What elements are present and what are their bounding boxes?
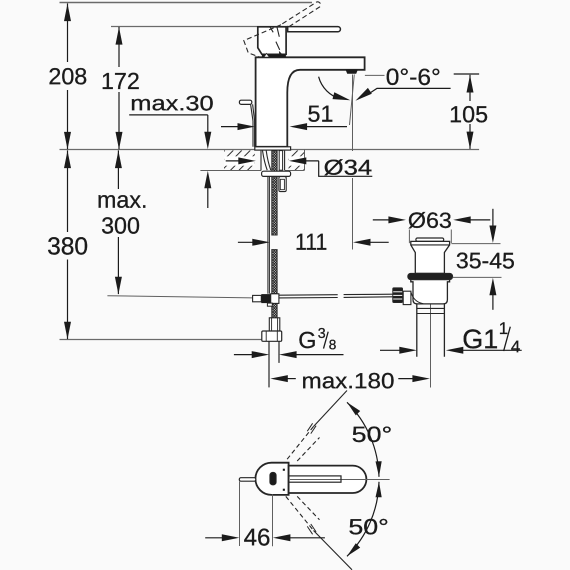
swing range upper second dashed xyxy=(297,438,319,462)
swing range lower line dashed xyxy=(286,496,314,530)
faucet body and spout outline xyxy=(256,57,365,147)
swing range lower line solid xyxy=(314,531,353,570)
hose curve in hole 2 xyxy=(266,151,271,171)
mounting hole right wall xyxy=(284,151,286,171)
dimension 105 top tick xyxy=(454,73,479,75)
pop-up rod ref line (max.300 datum) xyxy=(107,296,252,298)
rod clamp lower tab xyxy=(267,303,272,306)
drain plug body xyxy=(411,241,450,273)
spout swing arc xyxy=(319,77,341,99)
base escutcheon plate xyxy=(255,147,291,150)
svg-text:4: 4 xyxy=(511,337,520,356)
counter top line xyxy=(60,149,480,151)
rod clamp screw block xyxy=(261,294,270,303)
cartridge inner edge 3 xyxy=(276,42,280,50)
dimension max.300 line xyxy=(117,150,119,189)
dimension dia34 arrow right xyxy=(289,157,307,164)
mounting hole left wall xyxy=(260,151,262,171)
pop-up rod in hole xyxy=(279,151,282,171)
dimension G1 1/4 line left xyxy=(380,349,402,351)
ball joint socket xyxy=(403,291,411,304)
svg-text:50°: 50° xyxy=(348,514,389,539)
braided hose lower section xyxy=(272,250,278,318)
svg-text:Ø63: Ø63 xyxy=(408,208,452,233)
drain flange ring xyxy=(408,273,453,279)
counter hatch right xyxy=(278,150,323,170)
ref line top of handle (172 datum) xyxy=(111,26,288,28)
dimension max.180 arrow left xyxy=(270,375,288,382)
dimension 111 line left xyxy=(238,241,255,243)
counter hatch left xyxy=(205,150,267,170)
svg-text:35-45: 35-45 xyxy=(456,248,515,273)
svg-text:0°-6°: 0°-6° xyxy=(386,64,441,90)
dimension G3/8 line right xyxy=(279,351,297,358)
dimension 46 ext left xyxy=(239,481,241,546)
svg-text:46: 46 xyxy=(244,524,271,551)
svg-text:172: 172 xyxy=(101,68,140,94)
cartridge contact band xyxy=(262,54,286,57)
svg-text:51: 51 xyxy=(308,101,334,127)
swing angle upper arc xyxy=(347,402,379,477)
dimension dia34 arrow left xyxy=(226,160,244,162)
counter bottom line left xyxy=(200,170,261,172)
svg-text:8: 8 xyxy=(329,337,337,352)
swing range upper line dashed xyxy=(286,427,314,461)
hose lower ref line (380 datum) xyxy=(60,339,262,341)
pop-up rod stem xyxy=(251,104,255,147)
dimension 172 line xyxy=(118,27,120,67)
dimension max.30 leader down xyxy=(207,115,209,134)
dimension dia63 tick right xyxy=(450,230,452,244)
hose hex nut G3/8 xyxy=(262,331,282,341)
dimension 51 line right xyxy=(304,126,347,128)
dimension 0-6 deg line right xyxy=(454,73,479,75)
svg-text:max.: max. xyxy=(97,187,147,213)
top view screw dot upper xyxy=(283,469,285,471)
top view centerline xyxy=(290,479,390,481)
svg-text:111: 111 xyxy=(295,229,327,255)
dimension 51 line left xyxy=(221,126,240,128)
svg-text:G: G xyxy=(298,327,316,353)
pop-up rod knob xyxy=(239,100,251,104)
dimension 380 line xyxy=(67,150,69,232)
dimension max.30 arrow below counter xyxy=(207,188,209,209)
dimension dia63 tick left xyxy=(408,230,410,244)
dimension 46 line left xyxy=(205,537,224,539)
cartridge inner tip xyxy=(279,51,283,54)
svg-text:1: 1 xyxy=(499,319,508,338)
rod guide housing xyxy=(279,177,286,192)
rod clamp right piece xyxy=(271,294,279,304)
raised handle upper edge (dashed) xyxy=(282,2,320,27)
ball joint arc xyxy=(411,292,423,304)
counter right edge xyxy=(304,150,306,171)
dimension max.30 underline xyxy=(129,114,208,116)
drain centerline extension xyxy=(430,304,432,388)
svg-text:300: 300 xyxy=(101,212,140,238)
horizontal pop-up rod to drain xyxy=(279,294,393,298)
dimension max.180 arrow right xyxy=(398,378,415,380)
dimension 46 ext right xyxy=(272,494,274,546)
dimension 46 line right xyxy=(273,534,291,541)
top view pop-up rod stub xyxy=(239,478,256,482)
dimension 35-45 line top xyxy=(492,209,494,228)
svg-text:max.30: max.30 xyxy=(130,92,213,115)
svg-text:380: 380 xyxy=(47,233,88,260)
pop-up rod below counter xyxy=(268,177,270,294)
dimension G1 1/4 line right xyxy=(446,347,464,354)
cartridge / handle base xyxy=(258,27,286,55)
swing range lower second dashed xyxy=(297,496,319,519)
rod guide inner xyxy=(280,179,284,189)
counter bottom line right xyxy=(285,170,304,172)
swing range upper line solid xyxy=(314,391,348,427)
dimension 208 line xyxy=(67,3,69,62)
hose end fitting xyxy=(269,318,280,331)
svg-text:50°: 50° xyxy=(352,422,393,447)
svg-text:208: 208 xyxy=(48,63,87,89)
aerator outlet xyxy=(346,70,358,74)
dimension 111 line right xyxy=(353,239,371,246)
water stream tilted line (0-6 deg) xyxy=(350,75,355,126)
dimension 0-6 deg line left xyxy=(365,74,385,76)
hatch halo for dia34 dimension xyxy=(224,156,255,165)
top view handle bar xyxy=(289,466,367,493)
top view cartridge mark xyxy=(270,472,276,485)
dimension 35-45 line bottom xyxy=(492,294,494,310)
dimension dia63 line right xyxy=(453,216,471,223)
dimension 35-45 ext top xyxy=(452,243,501,245)
dimension dia63 line left xyxy=(373,219,391,221)
rod clamp left piece xyxy=(253,295,262,301)
top view escutcheon xyxy=(255,463,288,495)
ref line top of lever (208 datum) xyxy=(60,2,313,4)
svg-text:Ø34: Ø34 xyxy=(324,156,373,180)
top view handle slot xyxy=(289,476,341,482)
hose curve in hole 1 xyxy=(263,151,268,171)
dimension 0-6 deg leader xyxy=(369,88,450,93)
dimension dia34 leader xyxy=(319,161,373,176)
cartridge inner edge 1 xyxy=(270,27,273,33)
dimension 105 line xyxy=(469,75,471,101)
G3/8 pipe nipple xyxy=(268,341,270,387)
swing range upper break ticks xyxy=(307,423,312,431)
dimension 35-45 ext bottom xyxy=(453,276,502,278)
dimension G3/8 line left xyxy=(234,354,254,356)
braided hose upper section xyxy=(272,151,278,235)
cartridge notch xyxy=(264,53,270,57)
cartridge inner edge 2 xyxy=(277,27,279,37)
svg-text:105: 105 xyxy=(449,101,488,127)
drain plug cap xyxy=(416,238,444,241)
raised handle base dashed outline xyxy=(244,25,281,57)
drain body xyxy=(411,280,450,304)
svg-text:3: 3 xyxy=(318,326,326,342)
swing range lower break ticks xyxy=(307,526,312,534)
drain tailpipe xyxy=(417,304,445,357)
top view screw dot lower xyxy=(283,489,285,491)
lever handle bar xyxy=(288,27,341,32)
svg-text:max.180: max.180 xyxy=(301,368,394,393)
water stream vertical line xyxy=(352,75,354,152)
swing angle lower arc xyxy=(347,482,379,557)
knurled nut xyxy=(393,288,403,303)
locking flange under counter xyxy=(262,171,291,176)
